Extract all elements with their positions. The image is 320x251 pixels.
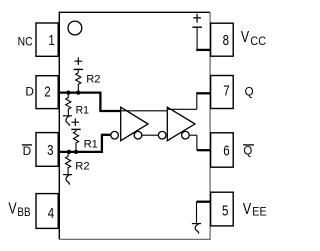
wire VCC pin 8 — [196, 49, 210, 51]
resistor R2 (pin2 pullup) — [76, 73, 81, 92]
pin 2 box — [36, 76, 58, 109]
inverting output bubble 4 — [182, 131, 190, 139]
wire Qbar output pin 6 — [197, 149, 211, 151]
svg-text:R1: R1 — [84, 139, 98, 151]
svg-text:D: D — [23, 144, 32, 158]
buffer U1b — [167, 107, 195, 141]
inverting output bubble 2 — [134, 131, 142, 139]
svg-text:R2: R2 — [86, 74, 100, 86]
resistor R2 (pin3 pulldown) — [66, 153, 71, 174]
svg-text:V: V — [243, 199, 252, 217]
overline of Dbar label — [22, 144, 32, 146]
IC package body U1 — [59, 12, 210, 239]
svg-text:V: V — [8, 199, 17, 217]
inverting input bubble 1 — [111, 131, 119, 139]
pin 4 box — [36, 194, 58, 229]
svg-text:8: 8 — [223, 32, 229, 49]
resistor R1 (pin3 pullup) — [73, 131, 78, 150]
VEE curl near pin 5 — [192, 202, 201, 234]
pin 1 box — [36, 23, 58, 56]
wire U1a top input to U1b — [121, 110, 168, 112]
inverting input bubble 3 — [158, 131, 166, 139]
svg-text:7: 7 — [223, 82, 229, 99]
pin 5 box — [211, 192, 234, 226]
svg-text:NC: NC — [18, 36, 33, 49]
wire bubble2 to bubble3 — [142, 134, 159, 136]
svg-text:EE: EE — [252, 206, 267, 219]
VEE curl below R2 — [63, 175, 72, 185]
pin 8 box — [211, 23, 234, 56]
VEE curl below R1 — [63, 116, 72, 126]
VCC rail symbol above mid R1 — [71, 118, 80, 131]
svg-text:5: 5 — [222, 202, 228, 219]
pin 6 box — [211, 133, 234, 167]
svg-text:CC: CC — [250, 36, 266, 49]
wire Qbar vertical segment — [196, 135, 198, 150]
wire U1b top output — [167, 108, 197, 110]
pin 7 box — [211, 76, 234, 109]
junction node dots on Dbar wire — [67, 150, 71, 154]
svg-text:V: V — [241, 28, 250, 46]
svg-text:4: 4 — [48, 205, 54, 222]
wire Dbar input pin 3 — [58, 135, 110, 152]
svg-text:R2: R2 — [75, 161, 89, 173]
junction node dots on D wire — [66, 90, 70, 94]
svg-text:6: 6 — [223, 142, 229, 159]
wire bubble4 to Qbar corner — [189, 134, 197, 136]
VCC rail symbol near pin 8 — [192, 14, 202, 50]
pin 3 box — [36, 133, 58, 167]
wire VEE pin 5 — [197, 201, 211, 203]
wire Q output pin 7 — [197, 92, 211, 94]
svg-text:R1: R1 — [76, 104, 89, 116]
svg-text:D: D — [25, 85, 34, 99]
wire Q vertical segment — [196, 92, 198, 109]
wire D input pin 2 — [58, 93, 120, 111]
resistor R1 (pin2 pulldown) — [66, 94, 71, 116]
svg-text:Q: Q — [243, 145, 252, 157]
buffer U1a — [121, 107, 148, 141]
svg-text:Q: Q — [245, 86, 254, 98]
VCC rail symbol above R2 — [74, 57, 83, 72]
pin-1 indicator circle — [68, 21, 82, 35]
svg-text:2: 2 — [44, 83, 50, 100]
svg-text:1: 1 — [48, 32, 54, 49]
svg-text:BB: BB — [17, 206, 30, 219]
svg-text:3: 3 — [47, 142, 53, 159]
overline of Qbar label — [243, 144, 254, 146]
